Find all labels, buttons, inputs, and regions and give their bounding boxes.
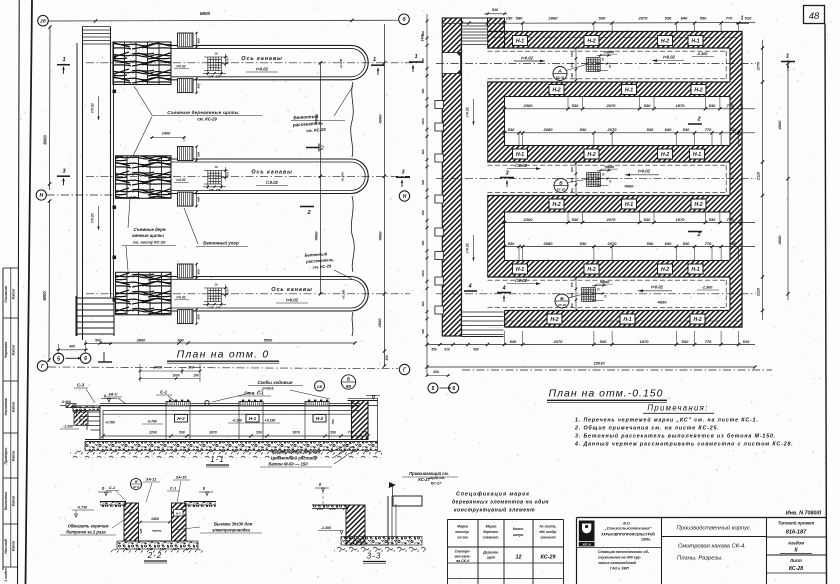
section 1-1 pit dim chain xyxy=(103,435,368,437)
svg-text:1000: 1000 xyxy=(172,373,179,377)
svg-text:Н-2: Н-2 xyxy=(587,152,595,158)
title block logo xyxy=(579,521,595,542)
svg-text:„Союзсельхозтехника": „Союзсельхозтехника" xyxy=(604,526,652,531)
svg-text:вянные щиты: вянные щиты xyxy=(132,233,164,238)
svg-text:+0.200: +0.200 xyxy=(341,172,345,182)
plan-0 channel 2 ladder niche upper xyxy=(178,147,194,161)
plan-150 corridor 3 letter circle xyxy=(555,294,569,308)
plan-150 corridor 3 centre axis xyxy=(436,293,756,295)
svg-text:Н-1: Н-1 xyxy=(625,202,633,208)
section 1-1 left entrance steps xyxy=(99,406,101,440)
section 1-1 shield boxes xyxy=(175,415,188,423)
svg-text:530: 530 xyxy=(644,217,651,222)
plan-150 doorway corner marks xyxy=(457,53,461,57)
svg-text:300: 300 xyxy=(385,355,389,361)
svg-text:510: 510 xyxy=(743,339,750,344)
svg-text:КС-28: КС-28 xyxy=(557,188,565,192)
svg-text:4830: 4830 xyxy=(657,300,668,305)
svg-text:6000: 6000 xyxy=(43,135,48,145)
svg-text:380: 380 xyxy=(421,240,425,245)
svg-text:510: 510 xyxy=(745,15,752,20)
section 1-1 right wall xyxy=(352,401,369,440)
plan-150 wall niches xyxy=(435,101,443,109)
plan-150 top dimension chain xyxy=(443,22,755,25)
svg-text:i=0.02: i=0.02 xyxy=(176,178,185,182)
svg-text:2070: 2070 xyxy=(606,103,617,108)
svg-text:см. листу КС-29: см. листу КС-29 xyxy=(133,240,166,245)
plan-150 right dim line 2770/2110 xyxy=(762,40,764,320)
svg-text:i=0.02: i=0.02 xyxy=(515,278,527,283)
section 3-3 left ground slab xyxy=(312,504,348,506)
section 2-2 left pit wall xyxy=(124,503,139,541)
svg-text:Котов: Котов xyxy=(12,402,16,413)
svg-text:Н-1: Н-1 xyxy=(691,267,699,273)
svg-text:2110: 2110 xyxy=(757,287,761,297)
plan-0 channel 1 wood shield block xyxy=(113,42,171,85)
svg-text:Смотро-: Смотро- xyxy=(455,550,472,554)
plan-0 channel 3 centre axis xyxy=(86,293,410,295)
svg-text:i=0.02: i=0.02 xyxy=(91,213,95,223)
plan-0 channel 1 drain grate xyxy=(207,57,209,71)
svg-text:Ось канавы: Ось канавы xyxy=(271,287,312,293)
plan-150 corridor 3 opening xyxy=(461,277,731,311)
svg-text:Станция технического об-: Станция технического об- xyxy=(598,550,650,554)
svg-text:800: 800 xyxy=(197,151,201,156)
svg-text:2800: 2800 xyxy=(136,338,146,342)
svg-text:2-2: 2-2 xyxy=(147,551,163,560)
svg-text:800: 800 xyxy=(197,269,201,274)
svg-text:530: 530 xyxy=(572,103,579,108)
svg-text:2 отдел: 2 отдел xyxy=(4,568,8,582)
plan-0 channel 2 drain grate xyxy=(207,171,209,185)
svg-text:i=0.02: i=0.02 xyxy=(466,243,470,253)
svg-text:530: 530 xyxy=(508,127,515,132)
plan-150 corridor 1 drain grate xyxy=(585,58,587,72)
svg-text:770: 770 xyxy=(727,103,734,108)
svg-text:зовых автомобилей: зовых автомобилей xyxy=(598,561,637,565)
svg-text:4000: 4000 xyxy=(314,231,319,242)
svg-text:1: 1 xyxy=(414,54,417,60)
svg-text:КС-29: КС-29 xyxy=(541,555,556,561)
svg-text:Н-2: Н-2 xyxy=(661,38,669,44)
svg-text:Н-1: Н-1 xyxy=(693,152,701,158)
section 2-2 interior dim 1400 xyxy=(140,521,170,523)
plan-0 trench top entrance steps xyxy=(83,26,111,28)
plan-150 far right dim line 4000x2 xyxy=(787,60,789,300)
svg-text:Котов: Котов xyxy=(12,451,16,462)
svg-text:План на отм. 0: План на отм. 0 xyxy=(177,349,270,361)
svg-text:4000: 4000 xyxy=(777,235,782,246)
svg-text:2300: 2300 xyxy=(523,217,534,222)
plan-150 corridor 1 vertical mini chain xyxy=(575,48,577,80)
svg-text:i=0.02: i=0.02 xyxy=(515,163,527,168)
svg-text:2б: 2б xyxy=(39,17,46,23)
svg-text:510: 510 xyxy=(492,8,499,12)
svg-text:1400: 1400 xyxy=(151,517,159,521)
svg-text:ЗА-15: ЗА-15 xyxy=(176,476,188,480)
svg-text:КС-28: КС-28 xyxy=(558,303,566,307)
plan-0 channel 1 ladder niche upper xyxy=(178,33,194,47)
svg-text:175: 175 xyxy=(209,75,214,79)
svg-text:2: 2 xyxy=(319,146,324,152)
svg-text:Н-2: Н-2 xyxy=(661,267,669,273)
svg-text:ЗА-11: ЗА-11 xyxy=(146,478,156,482)
svg-text:1б: 1б xyxy=(214,282,218,286)
plan-0 axis circle b top-right xyxy=(399,14,410,25)
svg-text:510: 510 xyxy=(444,348,450,352)
svg-text:Выемка 30х30 для: Выемка 30х30 для xyxy=(214,522,253,527)
svg-text:Н-2: Н-2 xyxy=(661,152,669,158)
svg-text:электропроводки: электропроводки xyxy=(212,528,251,533)
svg-text:530: 530 xyxy=(709,103,716,108)
plan-0 right outer dim line xyxy=(384,24,386,366)
svg-text:2400: 2400 xyxy=(153,366,163,370)
svg-text:510: 510 xyxy=(730,127,737,132)
svg-text:Примечания:: Примечания: xyxy=(647,404,708,413)
svg-text:элемент.: элемент. xyxy=(483,536,500,540)
svg-text:-1.300: -1.300 xyxy=(321,526,331,530)
svg-text:2070: 2070 xyxy=(606,217,617,222)
svg-text:Обмазать горячим: Обмазать горячим xyxy=(68,524,110,529)
svg-text:5500: 5500 xyxy=(264,338,273,342)
svg-text:p=261: p=261 xyxy=(261,386,274,391)
svg-text:трап: трап xyxy=(604,50,614,54)
specification table grid xyxy=(447,520,449,584)
svg-text:750: 750 xyxy=(331,419,335,424)
svg-text:4. Данный чертеж рассматриват: 4. Данный чертеж рассматривать совместно… xyxy=(574,441,794,448)
svg-text:400: 400 xyxy=(432,370,439,374)
plan-0 trench bottom stairs xyxy=(75,296,77,336)
svg-text:ХАРЬКОВПРОПРОМСЕЛЬСТРОЙ: ХАРЬКОВПРОПРОМСЕЛЬСТРОЙ xyxy=(601,533,655,537)
svg-text:2080: 2080 xyxy=(543,241,554,246)
svg-text:Н-2: Н-2 xyxy=(694,202,702,208)
svg-text:Спецификация марок: Спецификация марок xyxy=(456,491,530,498)
svg-text:590: 590 xyxy=(516,15,523,20)
plan-150 structure left face segments xyxy=(487,32,489,49)
section 1-1 soil squiggles xyxy=(70,451,382,458)
svg-text:4000: 4000 xyxy=(378,114,383,125)
svg-text:175: 175 xyxy=(209,306,214,310)
svg-text:530: 530 xyxy=(179,430,185,434)
svg-text:Н-2: Н-2 xyxy=(552,87,560,93)
section flag 1 left of plan-0 xyxy=(57,64,70,66)
svg-text:-0.780: -0.780 xyxy=(147,420,157,424)
svg-text:530: 530 xyxy=(682,339,689,344)
plan-0 channel 1 ladder niche lower xyxy=(178,79,194,93)
section 1-1 left kerb block xyxy=(66,404,76,408)
svg-text:Н-1: Н-1 xyxy=(516,267,524,273)
svg-text:Выполнил: Выполнил xyxy=(4,491,8,510)
svg-text:1870: 1870 xyxy=(292,430,300,434)
plan-0 channel 2 ladder niche lower xyxy=(178,192,194,206)
svg-text:Деревян.: Деревян. xyxy=(482,551,499,555)
sheet right border line xyxy=(825,24,827,584)
svg-text:550: 550 xyxy=(421,329,425,334)
svg-text:i=0.02: i=0.02 xyxy=(286,297,298,302)
svg-text:№ листа,: № листа, xyxy=(540,525,557,529)
svg-text:175: 175 xyxy=(226,289,230,294)
plan-0 axis circle G right xyxy=(399,364,409,374)
svg-text:Н-2: Н-2 xyxy=(177,416,185,421)
plan-0 axis circle b top-left xyxy=(38,15,49,26)
svg-text:Марка: Марка xyxy=(457,525,468,529)
svg-text:530: 530 xyxy=(330,430,336,434)
plan-0 channel 3 stadium outline xyxy=(168,277,368,312)
svg-text:Бетон М-50 — 150: Бетон М-50 — 150 xyxy=(268,462,308,467)
svg-text:100: 100 xyxy=(193,373,199,377)
svg-text:-1.300: -1.300 xyxy=(702,286,714,290)
svg-text:1936г.: 1936г. xyxy=(641,538,651,542)
svg-text:6: 6 xyxy=(452,386,455,392)
svg-text:530: 530 xyxy=(647,127,654,132)
svg-text:вая кана-: вая кана- xyxy=(454,555,471,559)
plan-0 right inner dim line 4000x2 xyxy=(320,63,322,294)
section 2-2 base gravel xyxy=(139,540,172,542)
svg-text:Лист: Лист xyxy=(789,558,802,563)
plan-0 channel 2 centre axis xyxy=(86,175,410,177)
section 1-1 circle B/VV xyxy=(341,375,355,389)
svg-text:деревянных элементов на оди: деревянных элементов на один xyxy=(452,500,549,506)
svg-text:800: 800 xyxy=(197,314,201,319)
plan-0 left vertical dim 6000 lower xyxy=(48,200,51,362)
svg-text:530: 530 xyxy=(580,127,587,132)
svg-text:570: 570 xyxy=(570,52,574,57)
svg-text:530: 530 xyxy=(647,241,654,246)
svg-text:575: 575 xyxy=(570,62,574,67)
svg-text:570: 570 xyxy=(570,282,574,287)
svg-text:570: 570 xyxy=(570,167,574,172)
svg-text:500: 500 xyxy=(95,338,101,342)
svg-text:4000: 4000 xyxy=(314,114,319,125)
plan-0 top dimension 5800 xyxy=(48,19,398,22)
svg-text:i=0.02: i=0.02 xyxy=(651,285,663,290)
section 1-1 circle SB xyxy=(315,381,325,391)
plan-150 left corridor (white) xyxy=(462,26,488,330)
svg-text:3А-С: 3А-С xyxy=(108,392,117,397)
svg-text:640: 640 xyxy=(665,241,672,246)
svg-text:конструктивный элемент: конструктивный элемент xyxy=(454,507,535,514)
svg-text:3. Бетонный рассекатель выпо: 3. Бетонный рассекатель выполняется из б… xyxy=(575,433,776,440)
svg-text:5: 5 xyxy=(432,386,435,392)
svg-text:1870: 1870 xyxy=(676,217,686,222)
plan-150 total dim 15010 xyxy=(427,366,755,368)
svg-text:С-1: С-1 xyxy=(160,390,168,395)
svg-text:Черновая: Черновая xyxy=(4,342,8,358)
plan-150 corridor 3 grate dim lines xyxy=(592,285,607,287)
svg-text:48: 48 xyxy=(809,11,820,22)
svg-text:Б: Б xyxy=(560,296,564,302)
section 1-1 entrance side wall hatch xyxy=(74,410,88,425)
section 1-1 shield zones xyxy=(166,402,190,406)
svg-text:Отв. С-1: Отв. С-1 xyxy=(244,391,264,396)
section 2-2 right pit wall xyxy=(172,503,187,541)
svg-text:Типовой проект: Типовой проект xyxy=(778,521,814,526)
plan-150 N-shield boxes band1 xyxy=(513,36,528,46)
svg-text:перем.: перем. xyxy=(152,529,162,533)
left margin inner strip line xyxy=(18,0,20,584)
svg-text:+0.200: +0.200 xyxy=(339,58,343,68)
svg-text:380: 380 xyxy=(421,210,425,215)
plan-150 bottom-left small dims xyxy=(425,343,428,346)
svg-text:175: 175 xyxy=(209,188,214,192)
svg-text:С-1: С-1 xyxy=(109,485,116,490)
svg-text:175: 175 xyxy=(216,188,221,192)
svg-text:-0.180: -0.180 xyxy=(232,419,242,423)
leader lines to wood shields lower xyxy=(128,199,130,228)
plan-150 corridor 2 letter circle xyxy=(554,179,568,193)
svg-text:Керамические плитки: Керамические плитки xyxy=(272,450,320,455)
svg-text:2600: 2600 xyxy=(377,318,382,329)
svg-text:530: 530 xyxy=(665,15,672,20)
svg-text:1: 1 xyxy=(741,16,744,22)
svg-text:530: 530 xyxy=(510,339,517,344)
svg-text:530: 530 xyxy=(683,241,690,246)
svg-text:СБ: СБ xyxy=(317,384,323,389)
svg-text:Котов: Котов xyxy=(12,345,16,356)
svg-text:1100: 1100 xyxy=(421,118,425,125)
section 1-1 top annotation dims xyxy=(140,370,200,372)
svg-text:4000: 4000 xyxy=(777,120,782,131)
plan-150 left longitudinal wall xyxy=(442,18,461,336)
svg-text:1: 1 xyxy=(62,57,65,63)
svg-text:175: 175 xyxy=(226,58,230,63)
svg-text:300: 300 xyxy=(570,73,574,78)
svg-text:380: 380 xyxy=(421,88,425,93)
svg-text:Производственный корпус.: Производственный корпус. xyxy=(676,525,751,532)
svg-text:530: 530 xyxy=(700,15,707,20)
section 3-3 wall xyxy=(346,505,365,545)
svg-text:770: 770 xyxy=(705,339,712,344)
svg-text:175: 175 xyxy=(216,306,221,310)
svg-text:КС-8: КС-8 xyxy=(133,485,139,489)
svg-text:Н-2: Н-2 xyxy=(693,317,701,323)
svg-text:Я: Я xyxy=(134,480,138,484)
plan-0 axis circle N right xyxy=(399,191,409,201)
plan-150 corridor 1 opening xyxy=(461,48,731,82)
svg-text:План на отм.-0.150: План на отм.-0.150 xyxy=(549,388,664,400)
sheet left border line xyxy=(26,0,33,584)
svg-text:Н-2: Н-2 xyxy=(694,87,702,93)
plan-0 anchor marks on trench wall xyxy=(113,56,117,60)
svg-text:4900: 4900 xyxy=(624,184,635,189)
plan-0 bottom dim small 400 xyxy=(58,344,60,354)
svg-text:530: 530 xyxy=(709,217,716,222)
svg-text:битумом за 2 раза: битумом за 2 раза xyxy=(66,530,106,535)
svg-text:1870: 1870 xyxy=(676,103,686,108)
plan-0 break wavy line segments xyxy=(351,82,354,157)
plan-0 bottom axis circles 5 and 6 xyxy=(53,353,63,363)
svg-text:2770: 2770 xyxy=(757,61,761,71)
svg-text:КС-28: КС-28 xyxy=(556,76,564,80)
svg-text:Планы. Разрезы.: Планы. Разрезы. xyxy=(677,556,723,562)
svg-text:150: 150 xyxy=(506,15,513,20)
svg-text:6000: 6000 xyxy=(42,291,47,301)
svg-text:640: 640 xyxy=(665,127,672,132)
svg-text:2. Общие примечания см. на л: 2. Общие примечания см. на листе КС-25. xyxy=(574,425,720,432)
svg-text:380: 380 xyxy=(421,149,425,154)
svg-text:770: 770 xyxy=(727,217,734,222)
svg-text:трап: трап xyxy=(600,280,610,284)
svg-text:КС-28: КС-28 xyxy=(789,566,803,572)
section 2-2 ground slabs xyxy=(100,501,126,503)
svg-text:1870: 1870 xyxy=(640,339,650,344)
svg-text:520: 520 xyxy=(421,180,425,185)
svg-text:i=0.02: i=0.02 xyxy=(663,55,675,60)
plan-0 axis circle N left xyxy=(36,190,46,200)
svg-text:Котов: Котов xyxy=(12,541,16,552)
svg-text:530: 530 xyxy=(572,217,579,222)
plan-150 bottom dim chain xyxy=(505,344,756,346)
svg-text:2200: 2200 xyxy=(148,430,157,434)
plan-0 bottom axis circle G left xyxy=(37,361,47,371)
svg-text:i=0.02: i=0.02 xyxy=(638,169,650,174)
svg-text:i=0.02: i=0.02 xyxy=(466,107,470,117)
section 3-3 right column xyxy=(387,496,389,545)
svg-text:300: 300 xyxy=(188,366,194,370)
svg-text:Н-2: Н-2 xyxy=(176,511,181,515)
plan-150 top-left step dim 510 xyxy=(484,13,507,15)
svg-text:В: В xyxy=(559,180,563,186)
plan-0 axis N dash-dot line xyxy=(47,194,121,196)
svg-text:530: 530 xyxy=(683,127,690,132)
svg-text:ГАЗ и ЗИЛ: ГАЗ и ЗИЛ xyxy=(610,567,629,571)
plan-150 wall doorway opening at corridor 1 xyxy=(442,53,460,74)
svg-text:Н: Н xyxy=(39,193,43,199)
svg-text:770: 770 xyxy=(348,430,354,434)
svg-text:i=0.02: i=0.02 xyxy=(176,295,185,299)
svg-text:штук.: штук. xyxy=(513,533,524,537)
plan-150 N-shield boxes band4 xyxy=(549,199,564,209)
svg-text:Смотровая канава СК-4.: Смотровая канава СК-4. xyxy=(678,544,746,550)
plan-150 corridor 2 vertical mini chain xyxy=(575,163,577,195)
plan-0 bottom dim chain xyxy=(100,342,355,344)
svg-text:550: 550 xyxy=(431,348,437,352)
svg-text:ва СК-4: ва СК-4 xyxy=(456,559,469,563)
svg-text:Н-1: Н-1 xyxy=(623,317,631,323)
plan-0 channel 3 ladder niche lower xyxy=(178,310,194,324)
plan-150 gap 2 dimension chains xyxy=(505,222,756,224)
svg-text:Съемные деревянные щиты: Съемные деревянные щиты xyxy=(167,110,239,115)
svg-text:Ось канавы: Ось канавы xyxy=(251,170,292,176)
plan-150 corridor 2 drain grate xyxy=(586,173,588,187)
svg-text:590: 590 xyxy=(473,348,479,352)
svg-text:1-1: 1-1 xyxy=(210,455,225,464)
section 3-3 marker triangle xyxy=(389,482,396,488)
svg-text:4000: 4000 xyxy=(378,231,383,242)
svg-text:2070: 2070 xyxy=(638,15,649,20)
plan-0 longitudinal trench walls (vertical strip) xyxy=(76,43,78,336)
plan-150 corridor 3 vertical mini chain xyxy=(575,278,577,310)
svg-text:770: 770 xyxy=(705,127,712,132)
plan-150 N-shield boxes band5 xyxy=(513,264,528,274)
plan-0 left vertical dim 6000 upper xyxy=(49,26,52,190)
svg-text:констр.: констр. xyxy=(455,530,469,534)
svg-text:1. Перечень чертежей марки „К: 1. Перечень чертежей марки „КС" см. на л… xyxy=(575,417,759,424)
svg-text:Н-2: Н-2 xyxy=(316,416,324,421)
svg-text:5800: 5800 xyxy=(200,11,211,16)
plan-0 channel 2 wood shield block xyxy=(116,156,172,199)
svg-text:575: 575 xyxy=(570,177,574,182)
section 1-1 floor slab top lines xyxy=(100,403,360,405)
plan-0 channel 1 centre axis xyxy=(86,62,420,64)
svg-text:см. КС-29: см. КС-29 xyxy=(197,117,217,122)
svg-text:Ось канавы: Ось канавы xyxy=(241,56,282,62)
svg-text:-0.780: -0.780 xyxy=(105,421,115,425)
svg-text:1б: 1б xyxy=(214,165,218,169)
plan-0 channel 3 ladder niche upper xyxy=(178,264,194,278)
svg-text:Н-2: Н-2 xyxy=(550,317,558,323)
plan-150 corridor 2 opening xyxy=(461,162,731,196)
